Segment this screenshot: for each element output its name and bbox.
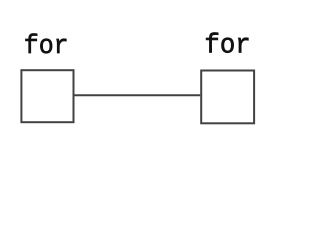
- svg-text:for: for: [204, 31, 250, 62]
- svg-text:for: for: [24, 30, 69, 61]
- node box B2 (right "for" block): [201, 71, 254, 124]
- wire connecting B1 to B2: [75, 94, 201, 96]
- node box B1 (left "for" block): [21, 70, 73, 122]
